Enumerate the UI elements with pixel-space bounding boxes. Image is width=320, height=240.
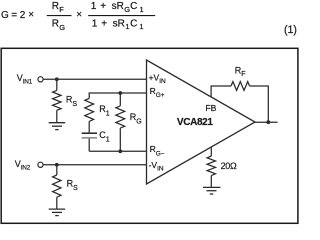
junction node VIN2/RS bbox=[55, 163, 59, 167]
wire RS2 to ground bbox=[56, 197, 58, 208]
svg-text:VIN2: VIN2 bbox=[15, 159, 31, 171]
svg-text:sR: sR bbox=[113, 19, 125, 30]
svg-text:+: + bbox=[100, 1, 106, 12]
resistor 20 ohm bbox=[207, 156, 215, 176]
svg-text:G: G bbox=[1, 10, 9, 21]
wire R1 to C1 bbox=[88, 121, 90, 132]
svg-text:RG−: RG− bbox=[150, 144, 165, 157]
capacitor C1 bottom plate bbox=[82, 137, 97, 139]
svg-text:C1: C1 bbox=[99, 130, 110, 144]
svg-text:R: R bbox=[52, 1, 59, 12]
svg-text:×: × bbox=[28, 10, 34, 21]
resistor RF bbox=[231, 82, 250, 91]
svg-text:RG: RG bbox=[130, 112, 142, 126]
svg-text:+: + bbox=[101, 19, 107, 30]
svg-text:VCA821: VCA821 bbox=[177, 117, 213, 128]
ground symbol RS2 bbox=[49, 209, 65, 216]
wire RG bottom stub bbox=[119, 128, 121, 151]
svg-text:G: G bbox=[59, 23, 65, 32]
resistor R1 bbox=[85, 98, 94, 121]
wire bottom rail RG- bbox=[89, 150, 146, 152]
input terminal VIN1 bbox=[38, 77, 43, 82]
figure frame bbox=[1, 48, 298, 223]
wire RS2 top stub bbox=[56, 165, 58, 175]
junction node output/RF bbox=[266, 120, 270, 124]
resistor RS (upper) bbox=[53, 90, 61, 110]
fraction bar 1 bbox=[47, 15, 72, 17]
wire top rail RG+ bbox=[89, 93, 146, 98]
input terminal VIN2 bbox=[38, 162, 43, 167]
wire FB stub bbox=[211, 86, 231, 97]
wire VIN1 to +VIN pin bbox=[43, 78, 146, 80]
capacitor C1 top plate bbox=[82, 132, 97, 134]
svg-text:R: R bbox=[52, 19, 59, 30]
svg-text:VIN1: VIN1 bbox=[17, 73, 33, 85]
wire RF to output node bbox=[250, 86, 269, 122]
svg-text:1: 1 bbox=[91, 1, 97, 12]
svg-text:RS: RS bbox=[66, 94, 78, 108]
wire RG top stub bbox=[119, 93, 121, 106]
wire output bbox=[255, 121, 278, 123]
wire C1 to bottom rail bbox=[88, 139, 90, 152]
junction node bottom rail/RG bbox=[118, 149, 122, 153]
ground symbol RS1 bbox=[49, 123, 65, 130]
fraction bar 2 bbox=[88, 15, 155, 17]
svg-text:2: 2 bbox=[20, 10, 26, 21]
svg-text:1: 1 bbox=[140, 5, 144, 14]
svg-text:1: 1 bbox=[125, 22, 129, 31]
junction node VIN1/RS bbox=[55, 77, 59, 81]
svg-text:C: C bbox=[130, 19, 137, 30]
svg-text:RG+: RG+ bbox=[150, 86, 165, 99]
svg-text:C: C bbox=[130, 1, 137, 12]
equation: G = 2 x RF/RG x (1+sRGC1)/(1+sR1C1) bbox=[1, 1, 297, 36]
svg-text:1: 1 bbox=[139, 22, 143, 31]
wire RS1 to ground bbox=[56, 110, 58, 122]
svg-text:×: × bbox=[76, 10, 82, 21]
wire VIN2 to -VIN pin bbox=[43, 164, 146, 166]
wire RS1 top stub bbox=[56, 79, 58, 90]
svg-text:sR: sR bbox=[112, 1, 124, 12]
junction node top rail/RG bbox=[118, 91, 122, 95]
svg-text:FB: FB bbox=[205, 103, 216, 113]
wire 20 ohm to ground bbox=[210, 176, 212, 187]
svg-text:RS: RS bbox=[67, 179, 79, 193]
svg-text:+VIN: +VIN bbox=[149, 72, 166, 85]
svg-text:=: = bbox=[11, 10, 17, 21]
svg-text:-VIN: -VIN bbox=[149, 160, 164, 173]
svg-text:20Ω: 20Ω bbox=[221, 161, 237, 171]
svg-text:RF: RF bbox=[235, 66, 246, 79]
svg-text:(1): (1) bbox=[284, 24, 297, 36]
op-amp U1 VCA821 triangle bbox=[147, 60, 256, 184]
resistor RS (lower) bbox=[53, 175, 61, 197]
wire 20 ohm top stub bbox=[210, 147, 212, 156]
resistor RG bbox=[116, 106, 125, 128]
ground symbol 20 ohm bbox=[203, 187, 221, 194]
svg-text:F: F bbox=[59, 5, 64, 14]
svg-text:R1: R1 bbox=[99, 104, 110, 118]
svg-text:1: 1 bbox=[92, 19, 98, 30]
